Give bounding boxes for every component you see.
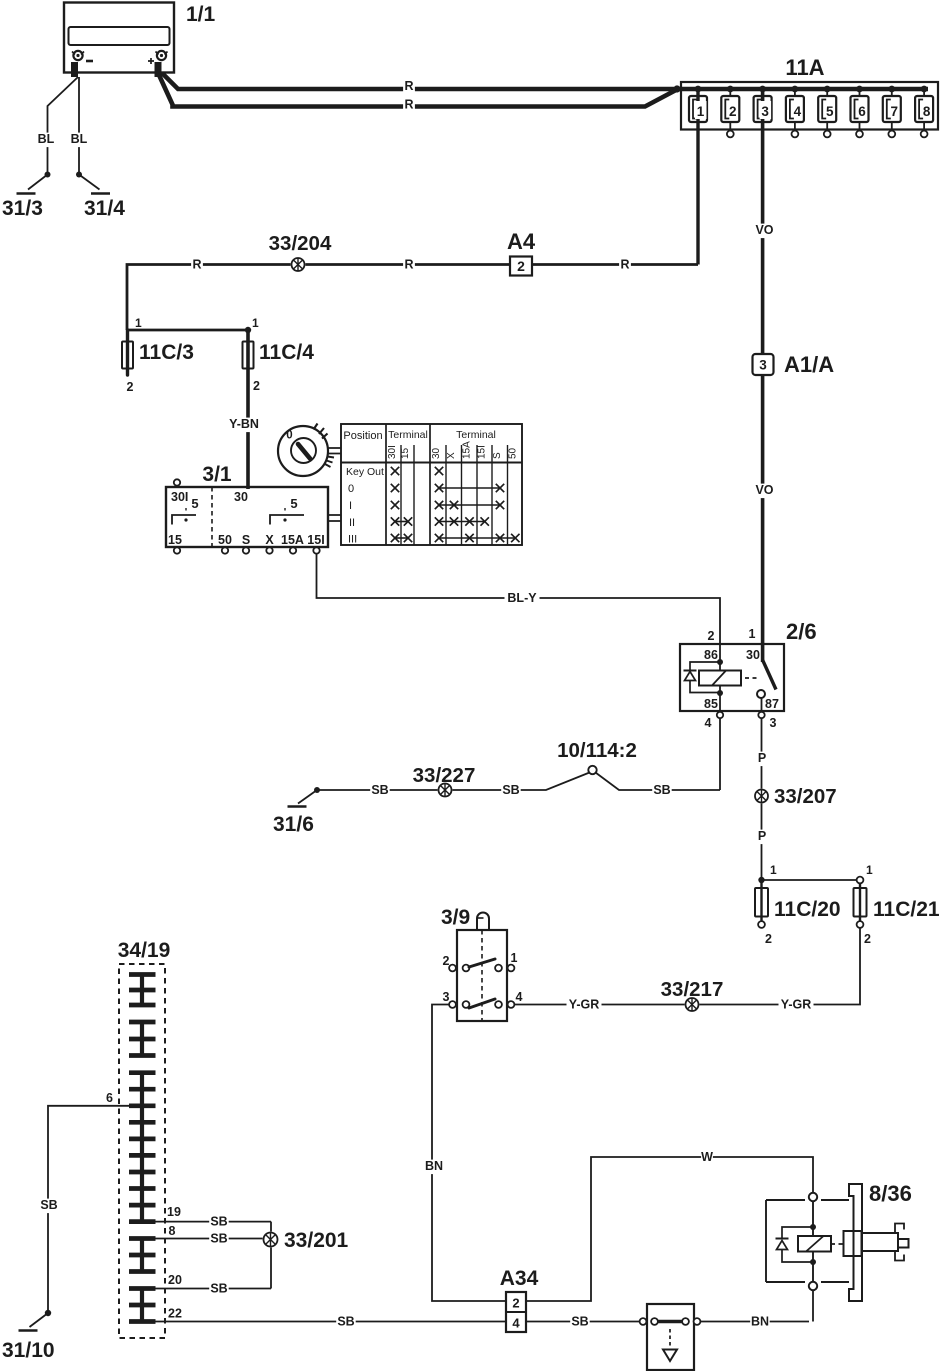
- switch 3/9 contact 2-1: [443, 951, 518, 971]
- link 3/1 to table: [328, 515, 341, 521]
- svg-text:10/114:2: 10/114:2: [557, 739, 637, 762]
- svg-text:Y-GR: Y-GR: [569, 998, 600, 1012]
- fuse box 11A: [681, 55, 938, 130]
- svg-text:2: 2: [127, 380, 134, 394]
- svg-text:33/201: 33/201: [284, 1229, 349, 1252]
- svg-text:BN: BN: [425, 1159, 443, 1173]
- splice 33/207: [754, 785, 837, 808]
- svg-text:1/1: 1/1: [186, 3, 216, 26]
- svg-text:4: 4: [516, 990, 523, 1004]
- horn 8/36 body outline: [766, 1200, 849, 1282]
- svg-text:30: 30: [431, 447, 442, 459]
- wire SB from A34 pin 4 to horn contact: [526, 1321, 639, 1323]
- svg-text:3/1: 3/1: [202, 463, 232, 486]
- svg-text:1: 1: [749, 627, 756, 641]
- svg-text:2: 2: [253, 379, 260, 393]
- horn relay coil: [798, 1201, 831, 1282]
- svg-text:R: R: [192, 258, 201, 272]
- horn actuator tip: [898, 1239, 909, 1248]
- svg-text:W: W: [701, 1150, 713, 1164]
- wire BL from battery minus to 31/3: [28, 77, 78, 190]
- junction at 11C/20 pin 1: [758, 877, 764, 883]
- svg-text:0: 0: [286, 430, 292, 442]
- label Y-GR left: [567, 998, 602, 1013]
- wire W from A34 pin 2 to horn 8/36: [526, 1157, 813, 1301]
- svg-text:SB: SB: [210, 1282, 227, 1296]
- svg-text:4: 4: [794, 104, 802, 119]
- relay coil: [699, 644, 741, 711]
- svg-text:R: R: [404, 98, 413, 112]
- svg-text:8/36: 8/36: [869, 1181, 912, 1206]
- relay 2/6: [680, 619, 817, 711]
- svg-text:33/227: 33/227: [413, 764, 476, 787]
- svg-text:4: 4: [705, 716, 712, 730]
- svg-text:SB: SB: [571, 1315, 588, 1329]
- svg-text:86: 86: [704, 648, 718, 662]
- svg-text:11A: 11A: [785, 55, 824, 80]
- svg-text:15I: 15I: [307, 533, 324, 547]
- svg-text:15A: 15A: [281, 533, 304, 547]
- svg-text:2/6: 2/6: [786, 619, 817, 644]
- junction at 11C/4 top: [245, 327, 251, 333]
- svg-text:30I: 30I: [171, 490, 188, 504]
- splice 33/227: [413, 764, 476, 798]
- svg-text:1: 1: [770, 863, 777, 877]
- svg-text:R: R: [404, 258, 413, 272]
- svg-text:15I: 15I: [477, 445, 488, 459]
- label R left: [191, 258, 203, 273]
- label SB middle: [501, 784, 521, 799]
- svg-text:2: 2: [443, 954, 450, 968]
- ignition key symbol: [278, 424, 334, 477]
- svg-text:BL: BL: [38, 132, 55, 146]
- fuse 11C/3: [122, 316, 194, 394]
- svg-text:8: 8: [169, 1224, 176, 1238]
- svg-text:15: 15: [168, 533, 182, 547]
- svg-text:11C/21: 11C/21: [873, 898, 940, 921]
- svg-text:Position: Position: [343, 430, 382, 442]
- horn actuator clips: [895, 1224, 904, 1261]
- svg-text:II: II: [349, 517, 355, 529]
- wire BL from battery minus to 31/4: [69, 77, 99, 190]
- horn armature link dashed: [831, 1243, 845, 1245]
- label R middle: [403, 258, 415, 273]
- svg-text:1: 1: [697, 104, 705, 119]
- svg-text:8: 8: [923, 104, 931, 119]
- connector 34/19 pin group 5: [129, 1289, 156, 1322]
- svg-text:30: 30: [746, 648, 760, 662]
- wire VO from fuse 3 down to relay 2/6 pin 30: [761, 89, 765, 662]
- svg-text:SB: SB: [502, 783, 519, 797]
- label VO lower: [755, 484, 775, 499]
- svg-text:31/10: 31/10: [2, 1339, 55, 1362]
- svg-text:SB: SB: [337, 1315, 354, 1329]
- label R right: [619, 258, 631, 273]
- svg-text:BN: BN: [751, 1315, 769, 1329]
- svg-text:1: 1: [866, 863, 873, 877]
- relay armature link (dashed): [745, 677, 759, 679]
- label SB right: [652, 784, 672, 799]
- svg-text:6: 6: [106, 1091, 113, 1105]
- svg-text:11C/4: 11C/4: [259, 341, 314, 364]
- label R upper: [403, 80, 415, 95]
- wire SB from pin 22 to A34 pin 4: [156, 1321, 507, 1323]
- svg-text:5: 5: [826, 104, 834, 119]
- wire BN from horn button to 8/36: [701, 1321, 810, 1323]
- switch 3/9 contact 3-4: [443, 990, 523, 1008]
- relay pin 3: [758, 698, 776, 880]
- svg-text:0: 0: [348, 483, 354, 495]
- svg-text:P: P: [758, 829, 766, 843]
- horn actuator cylinder: [862, 1233, 898, 1251]
- splice 33/201: [263, 1229, 349, 1252]
- svg-text:SB: SB: [371, 783, 388, 797]
- svg-text:SB: SB: [210, 1215, 227, 1229]
- svg-text:19: 19: [167, 1205, 181, 1219]
- link key to table: [328, 448, 341, 454]
- connector 34/19 pin group 3: [129, 1073, 156, 1222]
- label P upper: [756, 752, 768, 767]
- fuse 11C/21: [854, 863, 940, 946]
- label BN: [424, 1160, 444, 1175]
- fuse 8 of 11A: [915, 86, 933, 138]
- svg-text:SB: SB: [653, 783, 670, 797]
- label R lower: [403, 98, 415, 113]
- svg-text:A1/A: A1/A: [784, 352, 834, 377]
- fuse 4 of 11A: [786, 86, 804, 138]
- label P lower: [756, 830, 768, 845]
- svg-text:S: S: [492, 452, 503, 459]
- horn diode: [776, 1227, 814, 1262]
- svg-text:2: 2: [864, 932, 871, 946]
- relay switch blade 30-87: [763, 660, 776, 690]
- wire R (lower feed) battery to fuse box: [159, 75, 677, 107]
- connector strip 34/19: [2, 939, 912, 1370]
- ignition position table: [341, 424, 522, 546]
- label BL-Y: [505, 592, 540, 607]
- terminal 30I pin circle: [174, 479, 180, 485]
- connector strip 34/19: [118, 939, 171, 1338]
- svg-text:4: 4: [512, 1316, 520, 1331]
- ignition switch 3/1 box: [166, 463, 328, 547]
- horn mounting bracket: [849, 1184, 862, 1301]
- connector 34/19 pin group 2: [129, 1022, 156, 1056]
- svg-text:3: 3: [759, 358, 767, 373]
- svg-text:50: 50: [218, 533, 232, 547]
- contact symbol left with value 5: [172, 496, 199, 525]
- svg-text:S: S: [242, 533, 250, 547]
- svg-text:X: X: [265, 533, 274, 547]
- svg-text:Terminal: Terminal: [456, 429, 496, 441]
- svg-text:I: I: [349, 500, 352, 512]
- junction dot at 31/6 riser: [314, 787, 320, 793]
- svg-text:VO: VO: [755, 483, 773, 497]
- connection point 10/114:2: [557, 739, 637, 774]
- junction of feed wires at bus: [673, 85, 680, 92]
- fuse 1 of 11A: [689, 86, 707, 122]
- label W: [701, 1151, 713, 1166]
- svg-text:2: 2: [512, 1296, 519, 1311]
- bottom terminal labels 15 50 S X 15A 15I: [168, 533, 325, 547]
- horn 8/36 pin bottom: [809, 1282, 817, 1290]
- svg-text:87: 87: [765, 697, 779, 711]
- label SB on ground wire: [39, 1199, 59, 1214]
- battery negative terminal: [72, 51, 93, 77]
- svg-text:11C/20: 11C/20: [774, 898, 841, 921]
- svg-text:30I: 30I: [387, 445, 398, 459]
- svg-text:2: 2: [517, 258, 525, 274]
- connector 34/19 pin group 1: [129, 975, 156, 1006]
- fuse 7 of 11A: [883, 86, 901, 138]
- label Y-GR right: [779, 998, 814, 1013]
- connector A4 pin 2: [507, 229, 536, 276]
- wire R row from 11C fuses to fuse 1: [127, 265, 698, 331]
- ground 31/10: [2, 1310, 55, 1362]
- svg-text:SB: SB: [40, 1198, 57, 1212]
- label VO upper: [755, 224, 775, 239]
- contact symbol right with value 5: [270, 496, 304, 525]
- svg-text:BL-Y: BL-Y: [507, 591, 537, 605]
- svg-text:Terminal: Terminal: [388, 429, 428, 441]
- svg-text:SB: SB: [210, 1232, 227, 1246]
- wire link between 11C/3 and 11C/4 tops: [127, 329, 248, 332]
- wire from 11C/21 pin 2 down to Y-GR row: [514, 928, 860, 1005]
- svg-text:50: 50: [507, 447, 518, 459]
- wire SB from 34/19 pin 6 to ground 31/10: [48, 1106, 129, 1313]
- svg-text:Y-GR: Y-GR: [781, 998, 812, 1012]
- svg-text:X: X: [446, 452, 457, 459]
- label Y-BN: [227, 418, 262, 433]
- splice 33/204: [269, 232, 332, 272]
- svg-text:33/217: 33/217: [661, 978, 724, 1001]
- svg-text:A4: A4: [507, 229, 536, 254]
- svg-text:2: 2: [765, 932, 772, 946]
- svg-text:31/6: 31/6: [273, 813, 314, 836]
- relay contact 87: [757, 690, 765, 698]
- svg-text:30: 30: [234, 490, 248, 504]
- svg-text:1: 1: [511, 951, 518, 965]
- svg-text:VO: VO: [755, 223, 773, 237]
- terminal pin circles below 3/1: [174, 547, 320, 553]
- svg-text:BL: BL: [71, 132, 88, 146]
- switch 3/9: [441, 906, 507, 1021]
- svg-text:P: P: [758, 751, 766, 765]
- connector A34: [500, 1267, 539, 1332]
- svg-text:3/9: 3/9: [441, 906, 470, 929]
- fuse 6 of 11A: [851, 86, 869, 138]
- svg-text:15A: 15A: [462, 441, 473, 459]
- battery 1/1: [64, 3, 216, 73]
- svg-text:5: 5: [191, 496, 198, 511]
- wire SB pin 8 to splice 33/201: [156, 1238, 264, 1240]
- svg-text:11C/3: 11C/3: [139, 341, 194, 364]
- svg-text:5: 5: [290, 496, 297, 511]
- ground 31/3: [2, 194, 43, 221]
- wire link to 11C/21 pin 1: [762, 879, 857, 881]
- svg-text:20: 20: [168, 1273, 182, 1287]
- svg-text:31/3: 31/3: [2, 197, 43, 220]
- fuse 3 of 11A: [754, 86, 772, 122]
- svg-text:1: 1: [135, 316, 142, 330]
- wire SB row from 31/6 to relay pin 4: [317, 773, 720, 791]
- splice 33/217: [661, 978, 724, 1012]
- riser joining pins 19,8,20: [270, 1222, 272, 1289]
- wire BN from 3/9 pin 3 to A34 pin 2: [432, 1005, 506, 1302]
- fuse 11C/4: [243, 316, 315, 489]
- fuse 5 of 11A: [818, 86, 836, 138]
- svg-text:1: 1: [252, 316, 259, 330]
- wire BL-Y from 3/1 terminal 15I to relay 2/6: [317, 554, 721, 644]
- svg-text:2: 2: [708, 629, 715, 643]
- svg-text:6: 6: [858, 104, 866, 119]
- svg-text:31/4: 31/4: [84, 197, 125, 220]
- svg-text:2: 2: [729, 104, 737, 119]
- ground 31/4: [84, 194, 125, 221]
- wire R (upper feed) battery to fuse box: [162, 73, 928, 89]
- fuse 11C/20: [755, 863, 841, 946]
- ground 31/6: [273, 790, 317, 836]
- svg-text:3: 3: [443, 990, 450, 1004]
- svg-text:3: 3: [770, 716, 777, 730]
- label SB left: [370, 784, 390, 799]
- relay suppression diode: [684, 662, 721, 693]
- relay pin 4: [705, 711, 724, 790]
- horn actuator block: [844, 1231, 862, 1256]
- horn 8/36 pin top: [809, 1193, 817, 1201]
- svg-text:Key Out: Key Out: [346, 466, 384, 478]
- svg-text:III: III: [348, 534, 357, 546]
- horn button contact: [640, 1304, 701, 1370]
- wire SB pin 20 to 33/201 riser: [156, 1288, 272, 1290]
- svg-text:33/207: 33/207: [774, 785, 837, 808]
- svg-text:7: 7: [891, 104, 899, 119]
- svg-text:33/204: 33/204: [269, 232, 332, 255]
- battery positive terminal: [148, 51, 168, 77]
- wire from fuse 1 down to R row: [696, 89, 699, 265]
- wire SB pin 19 to 33/201 riser: [156, 1221, 272, 1223]
- svg-text:34/19: 34/19: [118, 939, 171, 962]
- svg-text:A34: A34: [500, 1267, 539, 1290]
- svg-text:22: 22: [168, 1307, 182, 1321]
- svg-text:R: R: [404, 79, 413, 93]
- svg-text:85: 85: [704, 697, 718, 711]
- svg-text:R: R: [620, 258, 629, 272]
- connector A1/A pin 3: [753, 352, 835, 377]
- horn 8/36: [869, 1181, 912, 1206]
- svg-text:3: 3: [761, 104, 769, 119]
- fuse 2 of 11A: [721, 86, 739, 138]
- connector 34/19 pin group 4: [129, 1239, 156, 1272]
- svg-text:Y-BN: Y-BN: [229, 417, 259, 431]
